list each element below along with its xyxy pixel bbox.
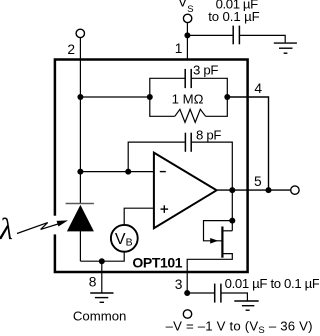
node junction loop-right / pin4 [224,94,230,100]
capacitor C 8pF plates [184,133,186,152]
wire pin 1 from Vs terminal into box [186,23,188,59]
terminal pin 3 (-V) [183,310,191,318]
svg-text:1: 1 [175,41,183,56]
transistor gate arrowhead [210,238,218,244]
svg-text:to 0.1 µF: to 0.1 µF [208,9,259,24]
wire Vs to bypass cap [187,34,232,36]
node junction common / pin8 [99,258,105,264]
capacitor bypass (Vs) plates [232,26,234,45]
node junction pin2-line / inverting wire [77,169,83,175]
ground symbol (-V bypass) [234,301,258,310]
terminal pin 5 output [291,186,299,194]
op-amp U1 triangle [154,153,217,229]
wire output from op-amp to terminal pin 5 [217,189,291,191]
node junction pin3 [184,290,190,296]
svg-text:Common: Common [73,308,127,323]
wire source stub down-left to pin 3 [187,254,232,293]
node junction pin2-line / feedback-left [77,94,83,100]
node junction inverting / 8pF tap [125,169,131,175]
resistor R 1MOhm zigzag [175,109,206,122]
op-amp minus sign [160,171,166,173]
wire node to feedback network left [80,96,149,98]
wire 8 pF feedback branch [128,142,232,231]
node junction output / pin4 wrap [266,187,272,193]
wire pin 8 to ground [101,261,103,293]
capacitor bypass (-V) plates [214,284,216,303]
op-amp plus sign [161,208,169,210]
capacitor C 3pF plates [184,69,186,88]
IC body box OPT101 [55,60,248,273]
node junction output / 8pF-drain line [229,187,235,193]
wire cap to ground [221,293,247,301]
transistor Q1 JFET channel bar [221,227,223,258]
feedback loop rectangle (1 MOhm + 3 pF) [150,78,228,116]
svg-text:B: B [126,237,133,249]
svg-text:5: 5 [254,174,262,189]
svg-text:8 pF: 8 pF [196,127,221,142]
ground symbol pin 8 [90,293,113,302]
svg-text:8: 8 [89,274,97,289]
wire pin2 vertical from terminal through box to photodiode cathode [79,38,81,204]
ground symbol (Vs bypass) [274,43,297,53]
terminal pin 2 [76,29,84,37]
photodiode D1 triangle [67,205,94,232]
transistor drain stub [222,230,232,232]
svg-text:1 MΩ: 1 MΩ [172,91,204,106]
svg-text:λ: λ [0,211,13,246]
wire diode anode down [79,231,81,261]
svg-text:2: 2 [67,42,75,57]
wire cap to ground (top) [240,35,285,42]
node junction drain line / gate loop [229,218,235,224]
svg-text:3 pF: 3 pF [193,63,218,78]
wire non-inverting input to VB [124,208,154,225]
voltage source VB circle [111,225,138,252]
wire VB bottom to common rail [80,252,124,262]
node junction loop-left [147,94,153,100]
svg-text:–V = –1 V to (VS – 36 V): –V = –1 V to (VS – 36 V) [166,319,313,336]
wire pin 4 exits box and wraps down to output [227,97,268,190]
wire gate loop [204,221,233,241]
svg-text:4: 4 [254,81,262,96]
wire pin3 to bypass cap [187,292,214,294]
svg-text:3: 3 [175,277,183,292]
light arrow lambda shaft [17,223,58,234]
svg-text:0.01 µF to 0.1 µF: 0.01 µF to 0.1 µF [225,276,319,291]
terminal Vs [183,14,191,22]
wire inverting input [80,171,153,173]
light arrow white casing [50,216,60,235]
light arrow head [57,220,68,226]
node junction Vs / bypass [184,32,190,38]
photodiode D1 cathode bar [66,203,94,205]
svg-text:V: V [115,231,126,248]
svg-text:OPT101: OPT101 [132,254,182,270]
